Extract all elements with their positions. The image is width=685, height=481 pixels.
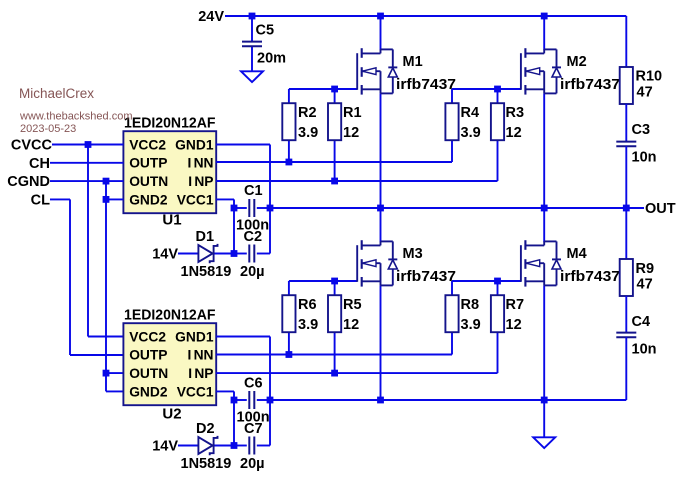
svg-text:3.9: 3.9 bbox=[461, 125, 481, 141]
resistor R9 bbox=[620, 259, 633, 296]
wire 24V top rail bbox=[225, 15, 626, 17]
svg-text:irfb7437: irfb7437 bbox=[396, 77, 456, 93]
wire U1 GND2 from CGND vertical bbox=[106, 198, 123, 200]
svg-text:47: 47 bbox=[637, 85, 653, 101]
wire C6-C7 right vertical bbox=[269, 400, 271, 446]
svg-text:10n: 10n bbox=[632, 342, 657, 358]
svg-text:MichaelCrex: MichaelCrex bbox=[19, 86, 94, 101]
capacitor C3 10n bbox=[616, 142, 636, 147]
wire R7 bottom stub bbox=[497, 332, 499, 373]
svg-text:U2: U2 bbox=[162, 405, 181, 422]
resistor R10 bbox=[620, 67, 633, 104]
svg-text:VCC1: VCC1 bbox=[177, 384, 214, 399]
svg-text:24V: 24V bbox=[198, 9, 224, 25]
svg-text:12: 12 bbox=[506, 125, 522, 141]
svg-text:C1: C1 bbox=[244, 183, 263, 199]
wire C6-C7 left vertical bbox=[233, 400, 235, 446]
svg-text:I NP: I NP bbox=[188, 174, 213, 189]
svg-text:R10: R10 bbox=[636, 69, 663, 85]
svg-text:CVCC: CVCC bbox=[11, 138, 53, 154]
svg-text:CL: CL bbox=[31, 193, 50, 209]
op-amp U2 gate driver 1EDI20N12AF bbox=[123, 308, 216, 423]
svg-text:VCC2: VCC2 bbox=[129, 137, 166, 152]
node C1 left junction bbox=[231, 205, 238, 212]
svg-text:3.9: 3.9 bbox=[298, 317, 318, 333]
svg-text:M2: M2 bbox=[567, 54, 587, 70]
svg-text:12: 12 bbox=[343, 317, 359, 333]
wire M1 drain from rail bbox=[380, 16, 382, 50]
wire C2 right stub bbox=[257, 253, 270, 255]
svg-text:R9: R9 bbox=[636, 261, 655, 277]
svg-text:1N5819: 1N5819 bbox=[181, 264, 232, 280]
svg-text:CH: CH bbox=[29, 156, 50, 172]
svg-text:C2: C2 bbox=[244, 229, 263, 245]
svg-text:14V: 14V bbox=[152, 439, 178, 455]
capacitor C7 20u bbox=[249, 437, 254, 455]
svg-text:VCC2: VCC2 bbox=[129, 329, 166, 344]
node OUT at M2 source bbox=[541, 205, 548, 212]
wire M2 drain from rail bbox=[543, 16, 545, 50]
svg-text:10n: 10n bbox=[632, 150, 657, 166]
svg-text:D2: D2 bbox=[196, 421, 215, 437]
wire C4 to ground rail bbox=[625, 337, 627, 400]
svg-text:12: 12 bbox=[506, 317, 522, 333]
wire C3 to OUT rail bbox=[625, 146, 627, 208]
node ground rail at M3 bbox=[377, 397, 384, 404]
svg-text:OUTP: OUTP bbox=[129, 156, 167, 171]
node R5 gate junction bbox=[331, 278, 338, 285]
node OUT at M1 source bbox=[377, 205, 384, 212]
wire R8 bottom stub bbox=[451, 332, 453, 354]
wire R10 feed from 24V rail bbox=[625, 16, 627, 67]
wire C6 left stub bbox=[234, 399, 247, 401]
svg-text:12: 12 bbox=[343, 125, 359, 141]
node CVCC junction bbox=[85, 141, 92, 148]
svg-text:R6: R6 bbox=[298, 297, 317, 313]
wire CGND to U1 OUTN bbox=[50, 180, 123, 182]
resistor R5 bbox=[328, 295, 341, 332]
node C6 left junction bbox=[231, 397, 238, 404]
svg-text:irfb7437: irfb7437 bbox=[560, 77, 620, 93]
node C6 right junction bbox=[267, 397, 274, 404]
wire M2 source to OUT bbox=[543, 93, 545, 208]
wire C1 left stub bbox=[234, 207, 247, 209]
resistor R7 bbox=[491, 295, 504, 332]
node 24V at M2 drain bbox=[541, 13, 548, 20]
capacitor C1 100n bbox=[249, 199, 254, 217]
wire C1 right stub bbox=[257, 207, 270, 209]
wire CVCC to U1 VCC2 bbox=[52, 144, 123, 146]
wire R1 bottom stub bbox=[334, 140, 336, 181]
resistor R2 bbox=[282, 103, 295, 140]
diode D2 1N5819 bbox=[198, 436, 217, 455]
wire C1-C2 left vertical bbox=[233, 208, 235, 254]
node CGND junction at U2 OUTN bbox=[103, 370, 110, 377]
wire U1 INN rail bbox=[216, 161, 452, 163]
svg-text:C5: C5 bbox=[256, 23, 275, 39]
svg-text:47: 47 bbox=[637, 277, 653, 293]
wire M1 gate network bbox=[289, 89, 357, 103]
svg-text:GND2: GND2 bbox=[129, 384, 168, 399]
wire R5 top stub bbox=[334, 281, 336, 295]
svg-text:irfb7437: irfb7437 bbox=[396, 269, 456, 285]
wire D2 cathode to C7 bbox=[214, 445, 247, 447]
svg-text:I NN: I NN bbox=[187, 156, 213, 171]
wire M3 source to rail bbox=[380, 285, 382, 400]
svg-text:C4: C4 bbox=[632, 314, 651, 330]
wire 14V to D2 bbox=[178, 445, 198, 447]
wire U2 INN rail bbox=[216, 354, 452, 356]
transistor M2 irfb7437 bbox=[521, 48, 561, 94]
svg-text:GND1: GND1 bbox=[175, 137, 214, 152]
svg-text:R3: R3 bbox=[506, 105, 525, 121]
wire U1 INP rail bbox=[216, 180, 497, 182]
wire M4 drain from OUT bbox=[543, 208, 545, 242]
svg-text:2023-05-23: 2023-05-23 bbox=[20, 123, 76, 135]
wire CL down to U2 OUTP bbox=[50, 199, 123, 355]
resistor R6 bbox=[282, 295, 295, 332]
wire 14V to D1 bbox=[178, 253, 198, 255]
svg-text:GND2: GND2 bbox=[129, 192, 168, 207]
svg-text:1EDI20N12AF: 1EDI20N12AF bbox=[124, 116, 216, 132]
svg-text:I NN: I NN bbox=[187, 348, 213, 363]
resistor R8 bbox=[445, 295, 458, 332]
svg-text:R2: R2 bbox=[298, 105, 317, 121]
node 24V at M1 drain bbox=[377, 13, 384, 20]
node R7 gate junction bbox=[494, 278, 501, 285]
transistor M4 irfb7437 bbox=[521, 240, 561, 286]
wire U2 OUTN stub bbox=[106, 372, 123, 374]
wire C5 top stub bbox=[251, 16, 253, 42]
capacitor C5 bbox=[242, 42, 262, 47]
node R3 gate junction bbox=[494, 86, 501, 93]
wire M4 source to rail bbox=[543, 285, 545, 400]
svg-text:VCC1: VCC1 bbox=[177, 192, 214, 207]
svg-text:irfb7437: irfb7437 bbox=[560, 269, 620, 285]
op-amp U1 gate driver 1EDI20N12AF bbox=[123, 116, 216, 229]
wire U1 VCC1 to C1 bbox=[216, 199, 234, 208]
svg-text:GND1: GND1 bbox=[175, 329, 214, 344]
svg-text:OUT: OUT bbox=[645, 201, 676, 217]
wire M2 gate network bbox=[452, 89, 521, 103]
capacitor C6 100n bbox=[249, 391, 254, 409]
capacitor C4 10n bbox=[616, 333, 636, 338]
svg-text:OUTP: OUTP bbox=[129, 348, 167, 363]
node ground rail at M4 bbox=[541, 397, 548, 404]
wire M3 gate network bbox=[289, 281, 357, 295]
svg-text:www.thebackshed.com: www.thebackshed.com bbox=[19, 110, 133, 122]
svg-text:R1: R1 bbox=[343, 105, 362, 121]
node R1 INP junction bbox=[331, 178, 338, 185]
svg-text:20µ: 20µ bbox=[240, 456, 264, 472]
svg-text:3.9: 3.9 bbox=[298, 125, 318, 141]
node R6 INN junction bbox=[286, 351, 293, 358]
capacitor C2 20u bbox=[249, 245, 254, 263]
svg-text:3.9: 3.9 bbox=[461, 317, 481, 333]
svg-text:R8: R8 bbox=[461, 297, 480, 313]
ground below C5 bbox=[241, 71, 263, 82]
svg-text:20m: 20m bbox=[257, 51, 286, 67]
svg-text:R4: R4 bbox=[461, 105, 480, 121]
wire ground stub bbox=[543, 400, 545, 437]
wire CVCC vertical to U2 VCC2 bbox=[88, 145, 123, 337]
svg-text:OUTN: OUTN bbox=[129, 366, 168, 381]
svg-text:1EDI20N12AF: 1EDI20N12AF bbox=[124, 308, 216, 324]
wire U2 VCC1 to C6 bbox=[216, 391, 234, 400]
wire C6 right stub bbox=[257, 399, 270, 401]
wire M3 drain from OUT bbox=[380, 208, 382, 242]
svg-text:M3: M3 bbox=[403, 246, 423, 262]
wire C1-C2 right vertical bbox=[269, 208, 271, 254]
wire R6 bottom stub bbox=[288, 332, 290, 354]
wire R9 to C4 bbox=[625, 296, 627, 333]
svg-text:I NP: I NP bbox=[188, 366, 213, 381]
svg-text:U1: U1 bbox=[162, 211, 181, 228]
wire OUT rail bbox=[270, 207, 644, 209]
transistor M3 irfb7437 bbox=[357, 240, 397, 286]
svg-text:C7: C7 bbox=[244, 421, 263, 437]
wire R2 bottom stub bbox=[288, 140, 290, 162]
resistor R1 bbox=[328, 103, 341, 140]
wire D1 cathode to C2 bbox=[214, 253, 247, 255]
diode D1 1N5819 bbox=[198, 244, 217, 263]
node D2-C7 junction bbox=[231, 442, 238, 449]
wire U2 INP rail bbox=[216, 372, 497, 374]
wire M1 source to OUT bbox=[380, 93, 382, 208]
svg-text:C6: C6 bbox=[244, 376, 263, 392]
svg-text:C3: C3 bbox=[632, 122, 651, 138]
wire R10 to C3 bbox=[625, 104, 627, 142]
wire CH to U1 OUTP bbox=[50, 162, 123, 164]
resistor R3 bbox=[491, 103, 504, 140]
wire ground rail bbox=[270, 399, 626, 401]
ground symbol bottom bbox=[533, 437, 555, 448]
node D1-C2 junction bbox=[231, 250, 238, 257]
wire R4 bottom stub bbox=[451, 140, 453, 162]
wire CGND vertical to U2 bbox=[106, 181, 123, 391]
svg-text:20µ: 20µ bbox=[240, 264, 264, 280]
wire U2 GND1 to bottom rail bbox=[216, 337, 270, 401]
node R1 gate junction bbox=[331, 86, 338, 93]
svg-text:1N5819: 1N5819 bbox=[181, 456, 232, 472]
svg-text:14V: 14V bbox=[152, 247, 178, 263]
wire OUT to R9 bbox=[625, 208, 627, 259]
wire U1 GND1 to OUT node bbox=[216, 145, 270, 209]
wire M4 gate network bbox=[452, 281, 521, 295]
node OUT at snubber bbox=[623, 205, 630, 212]
wire C5 to ground bbox=[251, 46, 253, 71]
wire R3 top stub bbox=[497, 89, 499, 103]
svg-text:R7: R7 bbox=[506, 297, 525, 313]
wire R5 bottom stub bbox=[334, 332, 336, 373]
transistor M1 irfb7437 bbox=[357, 48, 397, 94]
node C1 right junction OUT bbox=[267, 205, 274, 212]
svg-text:M4: M4 bbox=[567, 246, 587, 262]
svg-text:R5: R5 bbox=[343, 297, 362, 313]
node R2 INN junction bbox=[286, 159, 293, 166]
svg-text:D1: D1 bbox=[196, 229, 215, 245]
resistor R4 bbox=[445, 103, 458, 140]
node CGND junction at OUTN bbox=[103, 178, 110, 185]
svg-text:OUTN: OUTN bbox=[129, 174, 168, 189]
wire R3 bottom stub bbox=[497, 140, 499, 181]
node R5 INP junction bbox=[331, 370, 338, 377]
node CGND junction at GND2 bbox=[103, 196, 110, 203]
wire R1 top stub bbox=[334, 89, 336, 103]
svg-text:M1: M1 bbox=[403, 54, 423, 70]
svg-text:CGND: CGND bbox=[7, 174, 50, 190]
wire C7 right stub bbox=[257, 445, 270, 447]
node 24V at C5 bbox=[249, 13, 256, 20]
wire R7 top stub bbox=[497, 281, 499, 295]
